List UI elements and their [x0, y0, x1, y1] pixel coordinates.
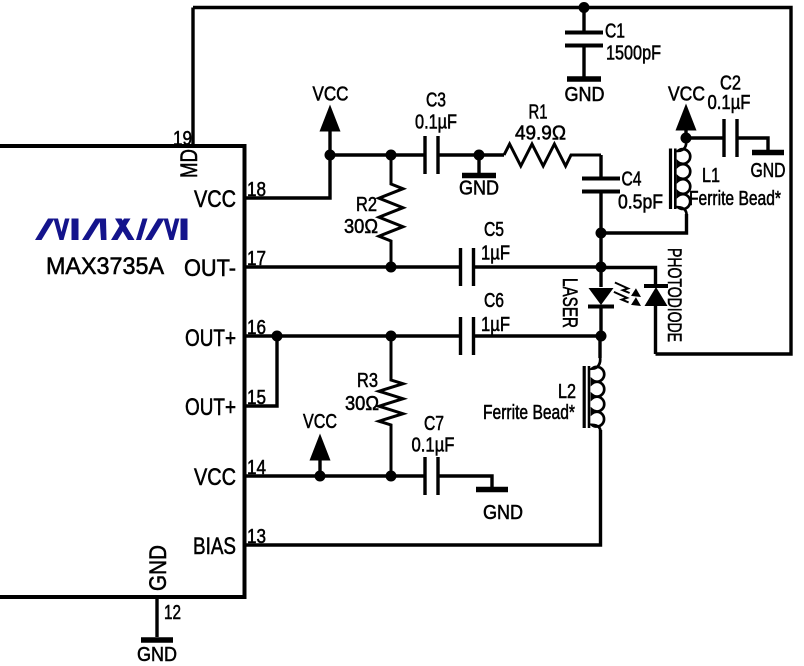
wire C4 down to node [599, 193, 602, 233]
svg-text:Ferrite Bead*: Ferrite Bead* [483, 402, 575, 424]
svg-text:19: 19 [173, 128, 192, 150]
ground at pin12 [141, 637, 173, 643]
wire C5 to laser node [474, 265, 601, 268]
svg-text:GND: GND [751, 160, 786, 182]
ground below C1 [567, 76, 601, 82]
wire C7 to GND [439, 476, 492, 487]
wire pin18 VCC [243, 155, 330, 198]
svg-text:0.5pF: 0.5pF [618, 192, 663, 214]
svg-text:BIAS: BIAS [193, 533, 236, 560]
node laser bottom / OUT+ [596, 331, 607, 342]
svg-text:GND: GND [565, 84, 605, 106]
svg-text:R1: R1 [529, 102, 548, 124]
svg-text:MD: MD [176, 149, 203, 178]
svg-text:1µF: 1µF [481, 243, 510, 265]
svg-text:MAX3735A: MAX3735A [46, 253, 164, 280]
svg-text:VCC: VCC [194, 464, 236, 491]
svg-text:R3: R3 [357, 370, 378, 392]
node pin16/pin15 tie [272, 331, 283, 342]
svg-text:LASER: LASER [558, 278, 581, 328]
node L1/VCC/C2 junction [681, 133, 692, 144]
svg-text:VCC: VCC [303, 411, 337, 433]
svg-text:0.1µF: 0.1µF [415, 112, 457, 134]
svg-text:L2: L2 [558, 381, 576, 403]
svg-text:GND: GND [459, 178, 499, 200]
wire pin14 VCC row [243, 474, 424, 477]
node R2 top [386, 150, 397, 161]
capacitor C5 [461, 248, 474, 286]
ground at C3/R1 node [477, 155, 480, 173]
node C4/L1 junction [596, 228, 607, 239]
svg-text:GND: GND [145, 545, 172, 591]
svg-text:OUT+: OUT+ [185, 394, 236, 421]
svg-text:VCC: VCC [668, 84, 705, 106]
resistor R2 [379, 155, 403, 267]
svg-text:1500pF: 1500pF [606, 43, 661, 65]
wire C3 to GND node [439, 153, 504, 156]
svg-text:C1: C1 [605, 21, 625, 43]
IC U1 MAX3735A body [0, 146, 245, 597]
wire pin15 OUT+ [243, 336, 277, 406]
resistor R1 [504, 144, 601, 166]
svg-text:Ferrite Bead*: Ferrite Bead* [689, 188, 781, 210]
wire pin17 OUT- row [243, 265, 460, 268]
capacitor C4 [582, 179, 620, 192]
node R3 top [386, 331, 397, 342]
capacitor C2 [724, 119, 737, 157]
svg-text:49.9Ω: 49.9Ω [515, 123, 566, 145]
capacitor C7 [425, 457, 438, 495]
inductor L1 ferrite bead [678, 140, 690, 233]
laser diode D1 [599, 233, 602, 287]
svg-text:C5: C5 [484, 219, 504, 241]
svg-text:1µF: 1µF [481, 314, 510, 336]
svg-text:0.1µF: 0.1µF [708, 92, 751, 114]
wire L2 to BIAS pin13 [243, 430, 601, 545]
svg-text:C3: C3 [426, 90, 446, 112]
svg-text:OUT+: OUT+ [185, 325, 236, 352]
svg-text:PHOTODIODE: PHOTODIODE [663, 248, 684, 342]
wire VCC row to C3 [330, 153, 424, 156]
svg-text:C4: C4 [622, 169, 642, 191]
svg-text:12: 12 [164, 602, 181, 624]
power VCC arrow (pin14) [318, 459, 321, 476]
node laser top / OUT- [596, 262, 607, 273]
capacitor C6 [461, 317, 474, 355]
light arrow 2 [614, 292, 629, 303]
svg-text:GND: GND [137, 644, 177, 666]
power VCC arrow (L1) [684, 129, 687, 141]
ground at C2 [752, 150, 784, 156]
wire pin12 GND [155, 597, 158, 637]
wire L1 node to C2 [686, 136, 723, 139]
svg-text:30Ω: 30Ω [345, 393, 379, 415]
power VCC arrow (pin18) [328, 130, 331, 155]
node VCC arrow / pin14 [315, 471, 326, 482]
wire top rail [193, 8, 791, 355]
svg-text:GND: GND [483, 502, 523, 524]
svg-text:VCC: VCC [194, 186, 236, 213]
node R2 bottom [386, 262, 397, 273]
svg-text:R2: R2 [356, 194, 377, 216]
wire MD pin19 up [191, 8, 194, 147]
node VCC row / pin18 [325, 150, 336, 161]
wire C2 to GND [738, 138, 768, 150]
svg-text:VCC: VCC [313, 84, 349, 106]
svg-text:C6: C6 [484, 290, 504, 312]
node top rail C1 junction [579, 2, 590, 13]
capacitor C3 [425, 136, 438, 174]
svg-text:C7: C7 [424, 413, 444, 435]
svg-text:30Ω: 30Ω [344, 216, 378, 238]
svg-text:0.1µF: 0.1µF [412, 435, 455, 457]
photodiode D2 [644, 284, 668, 288]
wire laser node to photodiode [601, 268, 656, 285]
node R3 bottom [386, 471, 397, 482]
wire R1 down to C4 [599, 155, 602, 177]
wire C6 to laser bottom node [474, 334, 601, 337]
wire pin16 OUT+ row [243, 334, 460, 337]
node GND tap [474, 150, 485, 161]
light arrow 1 [615, 283, 630, 294]
IC logo MAXIM [35, 219, 188, 241]
svg-text:L1: L1 [702, 165, 720, 187]
ground at C7 [476, 487, 508, 493]
wire node to L1 bottom [601, 214, 687, 233]
svg-text:OUT-: OUT- [184, 255, 236, 282]
capacitor C1 [565, 7, 603, 77]
inductor L2 ferrite bead [592, 357, 604, 433]
resistor R3 [379, 336, 403, 476]
